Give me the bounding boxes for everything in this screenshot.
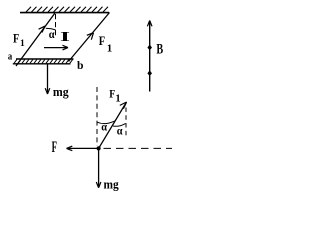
svg-text:F: F bbox=[109, 86, 115, 100]
bottom diagram: origin dot bbox=[97, 146, 101, 150]
bottom diagram: mg arrow bbox=[98, 148, 100, 186]
ceiling line bbox=[20, 12, 109, 14]
bottom diagram: left alpha arc bbox=[97, 121, 115, 124]
B mid arrow marker 2 bbox=[147, 70, 152, 76]
svg-text:B: B bbox=[156, 42, 163, 58]
current I arrow bbox=[44, 47, 67, 49]
svg-text:a: a bbox=[8, 51, 13, 63]
left dashed vertical bbox=[55, 14, 57, 36]
svg-text:α: α bbox=[117, 124, 123, 138]
bottom diagram: right alpha arc bbox=[113, 124, 125, 127]
left alpha arc bbox=[46, 28, 56, 30]
ceiling hatching bbox=[26, 7, 108, 12]
svg-text:F: F bbox=[52, 139, 57, 156]
svg-text:F: F bbox=[99, 33, 105, 48]
B field line bbox=[149, 22, 151, 92]
right F1 arrowhead bbox=[87, 33, 94, 40]
rod ab (hatched bar) bbox=[13, 59, 74, 64]
bottom diagram: main dashed vertical bbox=[96, 87, 98, 146]
svg-text:I: I bbox=[60, 30, 70, 45]
svg-text:1: 1 bbox=[107, 43, 113, 55]
bottom diagram: short dashed vertical under F1 tip bbox=[125, 108, 127, 139]
svg-text:1: 1 bbox=[115, 93, 120, 104]
svg-text:b: b bbox=[77, 58, 84, 72]
svg-text:mg: mg bbox=[104, 178, 120, 192]
right string bbox=[69, 13, 110, 62]
left F1 arrowhead bbox=[39, 26, 46, 33]
svg-text:α: α bbox=[101, 119, 107, 133]
mg arrow (top figure) bbox=[47, 64, 49, 92]
bottom diagram: dashed horizontal bbox=[104, 147, 173, 149]
left string bbox=[16, 13, 55, 66]
svg-text:F: F bbox=[13, 30, 19, 45]
svg-text:mg: mg bbox=[53, 85, 70, 99]
svg-text:α: α bbox=[49, 27, 55, 41]
bottom diagram: F arrow (left) bbox=[69, 147, 99, 149]
svg-text:1: 1 bbox=[20, 39, 25, 49]
B mid arrow marker 1 bbox=[147, 44, 152, 50]
bottom diagram: F1 arrow bbox=[99, 103, 126, 148]
